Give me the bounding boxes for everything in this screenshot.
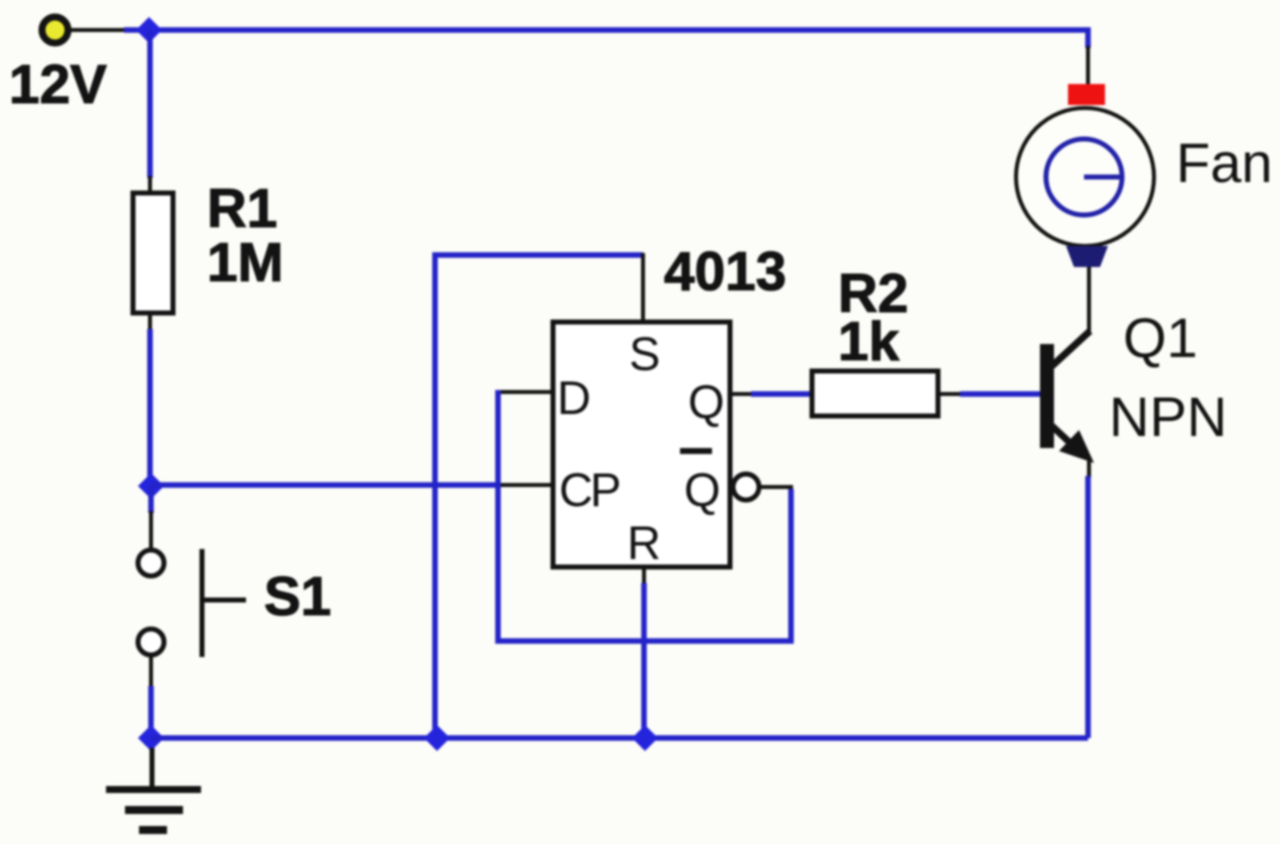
pin lead CP bbox=[498, 483, 554, 487]
wire emitter stub bbox=[1087, 460, 1091, 478]
pin lead S1 top bbox=[149, 511, 153, 550]
pin lead S1 bottom bbox=[149, 656, 153, 688]
pin lead D bbox=[500, 390, 554, 394]
svg-text:S: S bbox=[629, 327, 660, 380]
wire left rail upper bbox=[147, 30, 153, 178]
wire top rail blue bbox=[124, 30, 1088, 48]
wire D feedback bbox=[498, 390, 791, 641]
svg-text:4013: 4013 bbox=[664, 240, 786, 302]
junction node B bbox=[138, 473, 164, 499]
svg-text:Fan: Fan bbox=[1176, 131, 1273, 194]
pin lead R2 right bbox=[938, 392, 962, 396]
svg-text:R1: R1 bbox=[207, 177, 277, 239]
motor Fan body bbox=[1016, 108, 1154, 246]
pin lead R1 bottom bbox=[148, 313, 152, 331]
svg-text:S1: S1 bbox=[264, 565, 331, 627]
pin lead S bbox=[641, 253, 645, 323]
wire switch top stub bbox=[148, 486, 154, 513]
terminal 12V bbox=[42, 17, 68, 43]
junction node S-feedback bottom bbox=[424, 725, 450, 751]
junction node R bottom bbox=[632, 725, 658, 751]
svg-text:Q: Q bbox=[688, 375, 725, 428]
svg-text:Q: Q bbox=[684, 463, 721, 516]
wire Q to R2 bbox=[751, 391, 813, 397]
wire R2 to base bbox=[960, 391, 1041, 397]
wire switch bottom stub bbox=[148, 686, 154, 738]
svg-text:D: D bbox=[557, 371, 591, 424]
wire collector to fan bbox=[1087, 267, 1091, 332]
wire R to ground rail bbox=[641, 583, 647, 738]
svg-text:1M: 1M bbox=[207, 231, 283, 293]
motor Fan symbol bbox=[1046, 139, 1124, 215]
svg-text:NPN: NPN bbox=[1109, 385, 1227, 448]
junction node A bbox=[136, 17, 162, 43]
svg-text:1k: 1k bbox=[838, 310, 900, 372]
wire top rail 12V to fan bbox=[70, 28, 124, 32]
pin lead R bottom bbox=[642, 567, 646, 585]
overbar Qbar bbox=[680, 448, 712, 454]
pin lead fan top bbox=[1086, 46, 1090, 85]
svg-text:12V: 12V bbox=[9, 53, 107, 115]
svg-text:R: R bbox=[627, 516, 661, 569]
wire CP net bbox=[151, 482, 500, 488]
fan connector red bbox=[1068, 84, 1105, 105]
bubble Qbar bbox=[733, 474, 759, 500]
wire S feedback bbox=[435, 255, 643, 738]
fan connector blue bbox=[1066, 246, 1108, 267]
wire emitter to bottom rail bbox=[1085, 476, 1091, 738]
pin lead R1 top bbox=[148, 176, 152, 194]
junction node GND left bbox=[138, 725, 164, 751]
IC U1 4013 bbox=[553, 322, 730, 567]
pin lead Qbar bbox=[760, 485, 793, 489]
transistor Q1 bbox=[1040, 331, 1094, 463]
resistor R1 bbox=[133, 193, 173, 313]
pin lead Q bbox=[730, 392, 753, 396]
wire left rail lower bbox=[147, 329, 153, 487]
ground stem bbox=[150, 748, 155, 789]
switch S1 bbox=[138, 549, 246, 657]
ground bbox=[106, 786, 201, 834]
svg-text:Q1: Q1 bbox=[1123, 306, 1198, 369]
resistor R2 bbox=[812, 371, 938, 416]
svg-text:CP: CP bbox=[559, 463, 619, 516]
wire bottom rail bbox=[151, 735, 1088, 741]
